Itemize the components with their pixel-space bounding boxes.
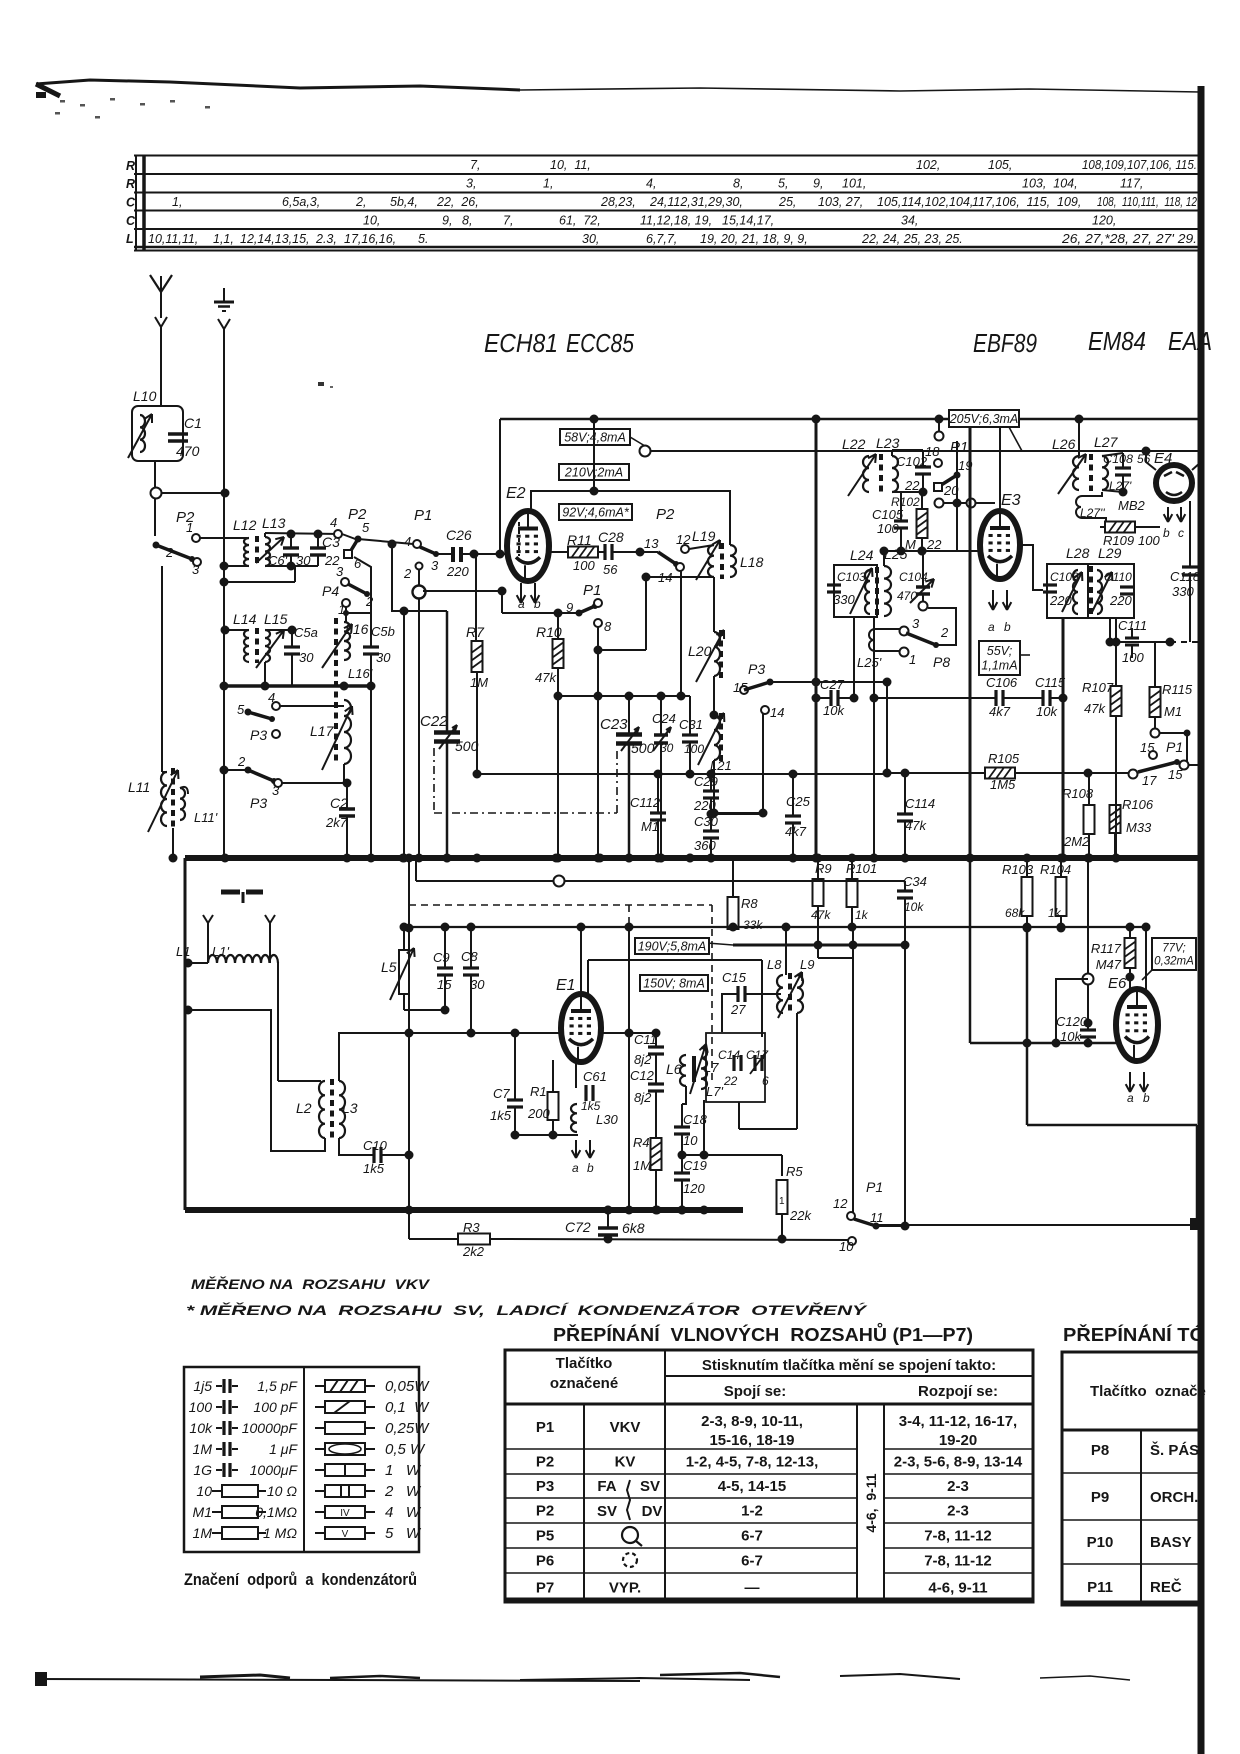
wire E3 grid left bbox=[957, 550, 980, 552]
wire L13 bottom node bbox=[265, 565, 318, 567]
svg-text:P3: P3 bbox=[536, 1478, 554, 1495]
svg-text:C28: C28 bbox=[598, 529, 624, 545]
svg-text:P1: P1 bbox=[866, 1179, 883, 1195]
svg-text:C15: C15 bbox=[722, 970, 747, 985]
wire x598 to bus bbox=[597, 696, 599, 858]
voltage box 58V 4,8mA bbox=[560, 429, 630, 445]
svg-text:M33: M33 bbox=[1126, 820, 1152, 835]
svg-text:47k: 47k bbox=[1084, 701, 1106, 716]
thick wire y686 bbox=[224, 684, 373, 688]
svg-text:a: a bbox=[988, 620, 995, 634]
speck mark bbox=[318, 382, 324, 386]
svg-text:P2: P2 bbox=[536, 1454, 554, 1471]
voltage box 210V 2mA bbox=[559, 464, 629, 480]
svg-text:Tlačítko označe: Tlačítko označe bbox=[1090, 1383, 1206, 1400]
wire x874 to bus bbox=[873, 618, 875, 858]
wire L3 top bbox=[339, 1033, 409, 1081]
svg-text:30: 30 bbox=[299, 650, 314, 665]
wire x970 B+ down bbox=[969, 427, 972, 858]
svg-text:3,: 3, bbox=[466, 177, 476, 191]
wire L2 bottom loop bbox=[188, 1010, 325, 1151]
junction bus dots bbox=[473, 854, 482, 863]
junction dots on lower bus bbox=[405, 1206, 414, 1215]
wire vertical x816 bbox=[815, 419, 818, 858]
svg-text:L15: L15 bbox=[264, 611, 288, 627]
wire P2-3 down to L11 bbox=[161, 566, 163, 772]
svg-text:L13: L13 bbox=[262, 515, 286, 531]
transformer L24 L25 box bbox=[834, 565, 877, 617]
svg-text:7,: 7, bbox=[470, 158, 480, 172]
coil L10 bbox=[132, 406, 183, 461]
svg-text:3: 3 bbox=[912, 616, 920, 631]
svg-text:L12: L12 bbox=[233, 517, 257, 533]
wire L10 to terminal bbox=[154, 461, 156, 536]
svg-text:P2: P2 bbox=[536, 1503, 554, 1520]
terminal 10 bbox=[848, 1237, 856, 1245]
svg-text:150V; 8mA: 150V; 8mA bbox=[643, 976, 705, 990]
svg-text:ECC85: ECC85 bbox=[566, 328, 634, 358]
svg-text:10000pF: 10000pF bbox=[242, 1420, 299, 1436]
svg-text:102,: 102, bbox=[916, 158, 940, 172]
svg-text:C: C bbox=[126, 214, 136, 228]
svg-text:3: 3 bbox=[272, 783, 280, 798]
svg-text:L18: L18 bbox=[740, 554, 764, 570]
svg-text:100 pF: 100 pF bbox=[253, 1399, 298, 1415]
svg-text:R117: R117 bbox=[1091, 941, 1122, 956]
svg-text:IV: IV bbox=[340, 1508, 350, 1519]
svg-text:25,: 25, bbox=[778, 195, 796, 209]
wire E6 anode bbox=[1145, 928, 1147, 990]
svg-text:C5b: C5b bbox=[371, 624, 395, 639]
junction dots on bus bbox=[221, 854, 230, 863]
wire y650 to L19 foot bbox=[598, 649, 646, 651]
svg-text:7-8, 11-12: 7-8, 11-12 bbox=[924, 1528, 992, 1545]
svg-text:Stisknutím tlačítka mění se sp: Stisknutím tlačítka mění se spojení takt… bbox=[702, 1357, 996, 1374]
svg-text:5b,4,: 5b,4, bbox=[390, 195, 418, 209]
svg-text:22, 24, 25, 23, 25.: 22, 24, 25, 23, 25. bbox=[861, 232, 963, 246]
svg-text:* MĚŘENO NA ROZSAHU SV, LAD: * MĚŘENO NA ROZSAHU SV, LADICÍ KONDENZÁT… bbox=[186, 1301, 868, 1318]
svg-text:500: 500 bbox=[455, 738, 479, 754]
wire L12 to x224 bbox=[224, 565, 249, 567]
svg-text:P5: P5 bbox=[536, 1528, 554, 1545]
svg-text:105,: 105, bbox=[988, 158, 1012, 172]
svg-text:2-3: 2-3 bbox=[947, 1478, 969, 1495]
wire y945 anode feed bbox=[733, 944, 905, 947]
svg-text:117,: 117, bbox=[1120, 177, 1143, 191]
svg-text:1M: 1M bbox=[633, 1158, 651, 1173]
svg-text:DV: DV bbox=[642, 1503, 663, 1520]
wire L15 bottom bbox=[264, 662, 266, 686]
svg-text:10k: 10k bbox=[1036, 704, 1058, 719]
svg-text:a: a bbox=[1127, 1091, 1134, 1105]
svg-text:L8: L8 bbox=[767, 957, 782, 972]
svg-text:28,23,: 28,23, bbox=[600, 195, 636, 209]
svg-text:77V;: 77V; bbox=[1162, 942, 1185, 954]
gang link dash C22-C23 bbox=[433, 748, 435, 813]
svg-text:10,: 10, bbox=[363, 214, 380, 228]
svg-text:1,: 1, bbox=[543, 177, 553, 191]
svg-text:VYP.: VYP. bbox=[609, 1580, 641, 1597]
svg-text:L30: L30 bbox=[596, 1112, 618, 1127]
svg-text:C14: C14 bbox=[718, 1048, 740, 1062]
wire E6 box bottom bbox=[1027, 1124, 1197, 1127]
wire L24 box to bus col bbox=[853, 618, 855, 698]
wire P1-4 feed jog bbox=[392, 544, 447, 611]
wire L21 to y774 bbox=[713, 760, 715, 813]
svg-text:120,: 120, bbox=[1092, 214, 1116, 228]
svg-text:R104: R104 bbox=[1040, 862, 1071, 877]
svg-text:C110: C110 bbox=[1104, 570, 1132, 584]
svg-text:C114: C114 bbox=[905, 796, 935, 811]
svg-text:L11: L11 bbox=[128, 779, 150, 795]
svg-text:15-16, 18-19: 15-16, 18-19 bbox=[709, 1432, 794, 1449]
svg-text:100: 100 bbox=[573, 558, 595, 573]
wire x887 up bbox=[886, 682, 888, 773]
svg-text:68k: 68k bbox=[1005, 906, 1025, 920]
svg-text:8j2: 8j2 bbox=[634, 1090, 652, 1105]
wire y1154 bbox=[682, 1154, 782, 1156]
wire y551 bbox=[884, 550, 957, 552]
wire L3 to C10 bbox=[339, 1138, 374, 1155]
svg-text:13: 13 bbox=[644, 536, 659, 551]
svg-text:2 W: 2 W bbox=[384, 1483, 422, 1500]
svg-text:R1: R1 bbox=[530, 1084, 547, 1099]
svg-text:L14: L14 bbox=[233, 611, 257, 627]
wire y696 oscillator node bbox=[558, 695, 690, 697]
svg-text:30,: 30, bbox=[582, 232, 599, 246]
svg-text:61, 72,: 61, 72, bbox=[559, 214, 601, 228]
svg-text:26, 27,*28, 27, 27' 29.: 26, 27,*28, 27, 27' 29. bbox=[1061, 232, 1197, 246]
svg-text:6: 6 bbox=[762, 1074, 769, 1088]
switch P8 bbox=[900, 627, 909, 636]
svg-text:10: 10 bbox=[839, 1239, 854, 1254]
svg-text:Spojí se:: Spojí se: bbox=[724, 1383, 787, 1400]
svg-text:M47: M47 bbox=[1096, 957, 1122, 972]
wire L14 top bbox=[225, 629, 249, 631]
svg-text:6,7,7,: 6,7,7, bbox=[646, 232, 677, 246]
wire AM B+ rail y927 bbox=[409, 926, 1146, 928]
svg-text:4-6, 9-11: 4-6, 9-11 bbox=[863, 1473, 879, 1532]
svg-text:2M2: 2M2 bbox=[1063, 834, 1090, 849]
svg-text:22k: 22k bbox=[789, 1208, 812, 1223]
svg-text:C5a: C5a bbox=[294, 625, 318, 640]
svg-text:8,: 8, bbox=[733, 177, 743, 191]
svg-text:4: 4 bbox=[404, 534, 411, 549]
svg-text:1: 1 bbox=[186, 520, 193, 535]
svg-text:0,05W: 0,05W bbox=[385, 1378, 430, 1395]
svg-text:103, 104,: 103, 104, bbox=[1022, 177, 1078, 191]
svg-text:4k7: 4k7 bbox=[785, 824, 807, 839]
svg-text:34,: 34, bbox=[901, 214, 918, 228]
svg-text:10,11,11,: 10,11,11, bbox=[148, 232, 198, 246]
svg-text:C103: C103 bbox=[837, 570, 866, 584]
svg-text:108, 110,111, 118, 12: 108, 110,111, 118, 12 bbox=[1097, 195, 1197, 209]
svg-text:P1: P1 bbox=[1166, 739, 1183, 755]
svg-text:30: 30 bbox=[376, 650, 391, 665]
svg-text:27: 27 bbox=[730, 1002, 746, 1017]
svg-text:M1: M1 bbox=[193, 1504, 212, 1520]
terminal ant bbox=[151, 488, 162, 499]
svg-text:6-7: 6-7 bbox=[741, 1528, 763, 1545]
wire P1-2 right bbox=[423, 590, 502, 592]
svg-text:L11': L11' bbox=[194, 810, 218, 825]
legend resistor row 1 W bbox=[315, 1469, 325, 1471]
svg-text:P8: P8 bbox=[1091, 1442, 1109, 1459]
svg-text:E6: E6 bbox=[1108, 975, 1127, 992]
wire E4 top bbox=[1146, 451, 1156, 470]
svg-text:1-2, 4-5, 7-8, 12-13,: 1-2, 4-5, 7-8, 12-13, bbox=[686, 1454, 819, 1471]
svg-text:c: c bbox=[1178, 526, 1184, 540]
wire L11 to bus bbox=[162, 771, 167, 773]
svg-text:REČ: REČ bbox=[1150, 1578, 1182, 1596]
wire L17 bottom to C2 bbox=[344, 764, 347, 783]
svg-text:3: 3 bbox=[431, 558, 439, 573]
svg-text:L25': L25' bbox=[857, 655, 882, 670]
legend resistor row 4 W bbox=[315, 1511, 325, 1513]
svg-text:101,: 101, bbox=[842, 177, 866, 191]
svg-text:P1: P1 bbox=[414, 507, 432, 524]
wire y1010 bbox=[404, 1009, 445, 1011]
voltage box 190V 5,8mA bbox=[635, 938, 709, 954]
svg-text:P2: P2 bbox=[656, 506, 675, 523]
svg-text:10: 10 bbox=[196, 1483, 212, 1499]
wire L2 connections bbox=[278, 1080, 321, 1082]
wire y642 C111 bbox=[1110, 641, 1170, 643]
svg-text:0,1 W: 0,1 W bbox=[385, 1399, 430, 1416]
svg-text:5: 5 bbox=[237, 702, 245, 717]
svg-text:1M5: 1M5 bbox=[990, 777, 1016, 792]
svg-text:MB2: MB2 bbox=[1118, 498, 1146, 513]
L7 shield box bbox=[706, 1033, 765, 1102]
wire E6 box left bbox=[1026, 927, 1029, 1125]
dashed unit boundary bbox=[409, 904, 712, 906]
svg-text:1k5: 1k5 bbox=[490, 1108, 512, 1123]
wire y958 bbox=[818, 957, 853, 959]
svg-text:R106: R106 bbox=[1122, 797, 1154, 812]
svg-text:R107: R107 bbox=[1082, 680, 1114, 695]
wire P1 to C26 bbox=[436, 553, 452, 555]
svg-text:1k: 1k bbox=[855, 908, 869, 922]
svg-text:C27: C27 bbox=[820, 677, 845, 692]
svg-text:14: 14 bbox=[770, 705, 784, 720]
wire y681 right bbox=[770, 681, 816, 683]
svg-text:R103: R103 bbox=[1002, 862, 1034, 877]
svg-text:C23: C23 bbox=[600, 716, 628, 733]
svg-text:Značení odporů a kondenzáto: Značení odporů a kondenzátorů bbox=[184, 1570, 417, 1589]
wire antenna down bbox=[160, 292, 162, 318]
svg-text:8j2: 8j2 bbox=[634, 1052, 652, 1067]
svg-text:E1: E1 bbox=[556, 977, 576, 994]
svg-text:C61: C61 bbox=[583, 1069, 607, 1084]
wire vertical x404 bbox=[403, 611, 405, 858]
wire L6 bottom bbox=[682, 1086, 686, 1104]
svg-text:4,: 4, bbox=[646, 177, 656, 191]
svg-text:L27': L27' bbox=[1109, 479, 1132, 493]
svg-text:1M: 1M bbox=[193, 1441, 213, 1457]
legend resistor row 0,5 W bbox=[315, 1448, 325, 1450]
svg-text:4-6, 9-11: 4-6, 9-11 bbox=[928, 1580, 987, 1597]
svg-text:30: 30 bbox=[660, 741, 674, 755]
svg-text:C8: C8 bbox=[461, 949, 478, 964]
svg-text:0,1MΩ: 0,1MΩ bbox=[255, 1504, 297, 1520]
wire 8 down bbox=[597, 627, 599, 696]
svg-text:470: 470 bbox=[897, 589, 917, 603]
svg-text:V: V bbox=[342, 1529, 349, 1540]
svg-text:L29: L29 bbox=[1098, 545, 1122, 561]
svg-text:R5: R5 bbox=[786, 1164, 803, 1179]
wire contact14 down bbox=[762, 714, 764, 813]
svg-text:100: 100 bbox=[189, 1399, 213, 1415]
svg-text:L10: L10 bbox=[133, 388, 157, 404]
right page border line bbox=[1198, 86, 1205, 1754]
wire L9 down bbox=[796, 1013, 798, 1129]
svg-text:L9: L9 bbox=[800, 957, 814, 972]
wire vertical x419 P1 left bbox=[416, 563, 423, 570]
svg-text:C30: C30 bbox=[694, 814, 719, 829]
svg-text:15,14,17,: 15,14,17, bbox=[722, 214, 774, 228]
IF box L28 C109 bbox=[1047, 564, 1088, 618]
svg-text:FA: FA bbox=[597, 1478, 616, 1495]
svg-text:P4: P4 bbox=[322, 583, 339, 599]
svg-text:2: 2 bbox=[365, 594, 374, 609]
wire P2-1 to L12 bbox=[200, 537, 247, 539]
svg-text:M1: M1 bbox=[641, 819, 659, 834]
svg-text:47k: 47k bbox=[905, 818, 927, 833]
svg-text:2-3, 5-6, 8-9, 13-14: 2-3, 5-6, 8-9, 13-14 bbox=[894, 1454, 1023, 1471]
svg-text:L: L bbox=[126, 232, 134, 246]
svg-text:1M: 1M bbox=[193, 1525, 213, 1541]
svg-text:1G: 1G bbox=[193, 1462, 212, 1478]
svg-text:10k: 10k bbox=[823, 703, 845, 718]
svg-text:P1: P1 bbox=[583, 582, 601, 599]
svg-text:2: 2 bbox=[165, 545, 174, 560]
svg-text:3: 3 bbox=[336, 564, 344, 579]
svg-text:R4: R4 bbox=[633, 1135, 650, 1150]
svg-text:C72: C72 bbox=[565, 1219, 591, 1235]
switch P3 lower bbox=[245, 767, 252, 774]
svg-text:12: 12 bbox=[676, 532, 691, 547]
wire contact5 right bbox=[358, 539, 413, 544]
svg-text:b: b bbox=[1004, 620, 1011, 634]
component index table bbox=[134, 155, 1203, 157]
svg-text:0,5 W: 0,5 W bbox=[385, 1441, 426, 1458]
svg-text:R: R bbox=[126, 177, 135, 191]
svg-text:30: 30 bbox=[470, 977, 485, 992]
wire y774 long bbox=[477, 773, 887, 775]
voltage box 77V 0,32mA bbox=[1152, 938, 1196, 970]
svg-text:11,12,18, 19,: 11,12,18, 19, bbox=[640, 214, 712, 228]
svg-text:117,106, 115, 109,: 117,106, 115, 109, bbox=[972, 195, 1081, 209]
svg-text:92V;4,6mA*: 92V;4,6mA* bbox=[562, 505, 630, 519]
svg-text:1k5: 1k5 bbox=[581, 1099, 601, 1113]
svg-text:a: a bbox=[518, 597, 525, 611]
svg-text:P11: P11 bbox=[1087, 1579, 1113, 1596]
svg-text:b: b bbox=[587, 1161, 594, 1175]
svg-text:0,32mA: 0,32mA bbox=[1154, 956, 1194, 968]
legend resistor row 0,1 W bbox=[315, 1406, 325, 1408]
svg-text:105,114,102,104,: 105,114,102,104, bbox=[877, 195, 973, 209]
svg-text:12,14,13,15,: 12,14,13,15, bbox=[240, 232, 310, 246]
svg-text:R115: R115 bbox=[1162, 682, 1193, 697]
svg-text:P1: P1 bbox=[536, 1419, 554, 1436]
voltage box 55V 1,1mA bbox=[979, 641, 1020, 675]
svg-text:220: 220 bbox=[446, 564, 469, 579]
svg-text:C24: C24 bbox=[652, 711, 676, 726]
svg-text:17,16,16,: 17,16,16, bbox=[344, 232, 396, 246]
svg-text:4: 4 bbox=[330, 515, 337, 530]
svg-text:R105: R105 bbox=[988, 751, 1020, 766]
terminal x1088 bbox=[1083, 974, 1094, 985]
svg-text:ECH81: ECH81 bbox=[484, 328, 558, 358]
svg-text:220: 220 bbox=[1049, 593, 1072, 608]
svg-text:1 MΩ: 1 MΩ bbox=[263, 1525, 297, 1541]
wire E1 cathode bbox=[575, 1062, 577, 1088]
svg-text:1 μF: 1 μF bbox=[269, 1441, 298, 1457]
dipole terminals bbox=[203, 915, 208, 923]
wire y1033 E1 grid bbox=[409, 1032, 562, 1034]
paper edge smudge top bbox=[36, 80, 520, 90]
wire C29C30 to contact14 col bbox=[711, 813, 763, 815]
wire ground down bbox=[218, 319, 224, 329]
wire y1045 to E6 grid bbox=[970, 1042, 1116, 1045]
svg-text:P10: P10 bbox=[1087, 1534, 1114, 1551]
svg-text:ORCH.: ORCH. bbox=[1150, 1489, 1198, 1506]
wire E1 anode top bbox=[580, 927, 582, 994]
wire L23 to C102 bbox=[891, 450, 893, 456]
table P1-P7 frame bbox=[505, 1350, 1033, 1602]
svg-text:PŘEPÍNÁNÍ VLNOVÝCH ROZSAHŮ (: PŘEPÍNÁNÍ VLNOVÝCH ROZSAHŮ (P1—P7) bbox=[553, 1323, 973, 1345]
heater arrows E1 bbox=[575, 1140, 577, 1158]
svg-text:55V;: 55V; bbox=[987, 644, 1013, 658]
wire L8 up bbox=[785, 927, 787, 975]
svg-text:4k7: 4k7 bbox=[989, 704, 1011, 719]
wire P3-4 right bbox=[280, 705, 344, 707]
svg-text:C: C bbox=[126, 196, 136, 210]
svg-text:C9: C9 bbox=[433, 950, 450, 965]
svg-text:200: 200 bbox=[527, 1106, 550, 1121]
svg-text:L26: L26 bbox=[1052, 436, 1076, 452]
antenna symbol bbox=[160, 276, 162, 293]
wire y773 R105 bbox=[887, 772, 985, 774]
wire E2 grid left bbox=[499, 419, 501, 554]
svg-text:3: 3 bbox=[192, 562, 200, 577]
svg-text:2.3,: 2.3, bbox=[315, 232, 337, 246]
svg-text:C115: C115 bbox=[1035, 675, 1066, 690]
wire E3 to IF box bbox=[1020, 545, 1043, 590]
svg-text:33k: 33k bbox=[743, 918, 763, 932]
svg-text:C106: C106 bbox=[986, 675, 1018, 690]
svg-text:9,: 9, bbox=[442, 214, 452, 228]
svg-text:C11: C11 bbox=[634, 1032, 657, 1047]
svg-text:KV: KV bbox=[615, 1454, 636, 1471]
dipole antenna symbol bbox=[221, 890, 240, 895]
svg-text:C1: C1 bbox=[184, 415, 202, 431]
svg-text:8: 8 bbox=[604, 619, 612, 634]
svg-text:120: 120 bbox=[683, 1181, 705, 1196]
wire E2 anode up bbox=[531, 491, 730, 545]
svg-text:SV: SV bbox=[597, 1503, 617, 1520]
wire C111 col bbox=[1131, 645, 1133, 658]
svg-text:C120: C120 bbox=[1056, 1014, 1088, 1029]
svg-text:1,: 1, bbox=[172, 195, 182, 209]
svg-text:1k5: 1k5 bbox=[363, 1161, 385, 1176]
wire y698 right bbox=[874, 697, 996, 699]
svg-text:1 W: 1 W bbox=[385, 1462, 422, 1479]
svg-text:470: 470 bbox=[176, 443, 200, 459]
wire E2 to R11 bbox=[549, 551, 569, 553]
svg-text:P9: P9 bbox=[1091, 1489, 1109, 1506]
svg-text:L16': L16' bbox=[348, 666, 373, 681]
